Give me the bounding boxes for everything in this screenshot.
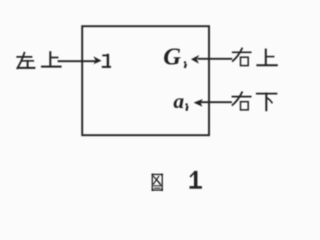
svg-text:a: a <box>173 89 184 113</box>
svg-text:G: G <box>163 44 181 71</box>
